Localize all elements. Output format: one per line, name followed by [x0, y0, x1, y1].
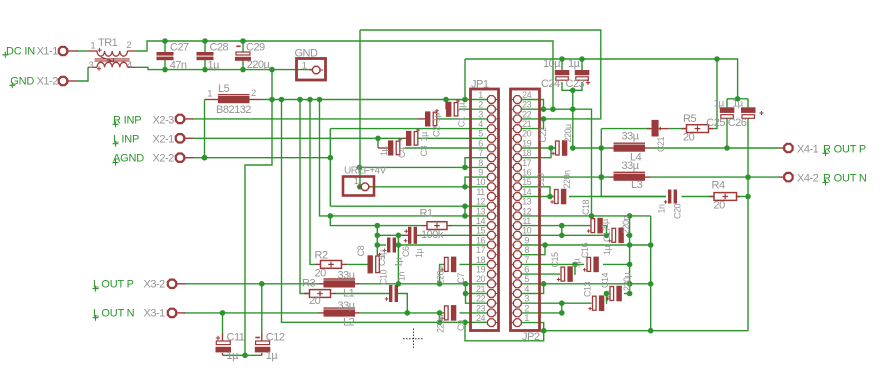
svg-text:C23: C23 — [566, 78, 585, 90]
supply symbol UREF+4V — [343, 166, 387, 196]
connector pad X4-1 — [779, 144, 793, 152]
capacitor C7 — [436, 257, 467, 285]
inductor L5 — [205, 83, 263, 116]
wire vertical x300 from supply row to R3 — [300, 100, 310, 294]
capacitor C24 — [541, 58, 569, 90]
wire JP2 pin18 bracket — [521, 148, 551, 158]
svg-text:C6: C6 — [401, 246, 411, 257]
svg-text:1µ: 1µ — [432, 112, 442, 122]
wire x330 vertical joining JP1 pin4 and pin12 rows — [330, 129, 487, 209]
svg-text:23: 23 — [522, 100, 532, 110]
svg-text:C22: C22 — [538, 127, 548, 143]
wire L5 pin1 to AGND row — [202, 100, 208, 161]
wire L INP row to C3 and JP1 pin5 — [192, 137, 487, 139]
svg-text:14: 14 — [476, 216, 486, 226]
svg-text:220n: 220n — [436, 314, 446, 333]
svg-text:C28: C28 — [210, 42, 229, 54]
svg-text:C1: C1 — [457, 116, 467, 127]
capacitor C11 — [216, 332, 245, 362]
svg-text:15: 15 — [476, 226, 486, 236]
inductor L1 — [319, 269, 360, 299]
svg-text:C29: C29 — [246, 42, 265, 54]
wire JP2 pin11 row through C18 — [521, 223, 609, 238]
svg-text:C10: C10 — [379, 269, 389, 285]
connector pad X2-2 — [176, 154, 193, 162]
svg-text:C13: C13 — [583, 281, 593, 297]
wire supply bus row1 from L5 pin2 to JP1 pin1 — [262, 97, 487, 103]
svg-text:20: 20 — [315, 268, 327, 280]
wire JP2 pin14 row through C19 to C20 R4 — [521, 196, 666, 198]
connector pad X2-3 — [176, 115, 193, 123]
svg-text:9: 9 — [478, 168, 483, 178]
svg-text:1µ: 1µ — [227, 350, 240, 362]
svg-text:X2-3: X2-3 — [153, 114, 175, 126]
svg-text:1µ: 1µ — [414, 248, 424, 258]
svg-text:220µ: 220µ — [622, 272, 632, 291]
svg-text:R2: R2 — [315, 249, 328, 261]
wire JP1 pin7 bracket to pin8 row — [462, 158, 487, 171]
wire top bus y41 from TR1 pin2 to JP2 pin23 net — [136, 38, 553, 109]
wire right ground vertical x650 to bottom bus — [648, 216, 654, 334]
wire C25 C26 top tie — [727, 96, 748, 107]
svg-text:X4-2: X4-2 — [797, 172, 819, 184]
connector pad X4-2 — [779, 173, 793, 181]
capacitor C22 — [538, 124, 573, 156]
svg-text:4: 4 — [127, 60, 132, 71]
svg-text:DC IN: DC IN — [6, 45, 35, 57]
svg-text:33µ: 33µ — [338, 300, 356, 312]
wire C12 vertical from L OUT P row — [261, 284, 263, 335]
svg-text:R OUT P: R OUT P — [823, 143, 866, 155]
svg-text:100k: 100k — [421, 229, 444, 241]
svg-text:1: 1 — [354, 176, 359, 187]
wire JP2 pin5 row — [521, 281, 654, 287]
svg-text:7: 7 — [524, 255, 529, 265]
svg-text:10µ: 10µ — [543, 58, 561, 70]
svg-text:C11: C11 — [227, 332, 245, 344]
wire C4 tap from L INP row — [375, 136, 487, 149]
svg-text:C27: C27 — [170, 42, 189, 54]
svg-text:1n: 1n — [657, 204, 667, 214]
transformer TR1 — [87, 37, 136, 71]
svg-text:8: 8 — [524, 245, 529, 255]
svg-text:C4: C4 — [397, 147, 407, 158]
svg-text:18: 18 — [522, 148, 532, 158]
svg-text:12: 12 — [476, 197, 486, 207]
svg-text:X1-2: X1-2 — [37, 75, 59, 87]
svg-text:6: 6 — [524, 265, 529, 275]
svg-text:C16: C16 — [580, 242, 590, 258]
wire ground bus under C11 C12 — [223, 354, 262, 356]
svg-text:R1: R1 — [420, 208, 433, 220]
svg-text:2: 2 — [478, 100, 483, 110]
wire C25 bottom to R OUT P row — [724, 145, 730, 151]
wire JP2 pin15 bracket — [521, 187, 553, 200]
resistor R3 — [302, 278, 336, 308]
svg-text:33µ: 33µ — [622, 131, 640, 143]
svg-text:1µ: 1µ — [714, 99, 725, 110]
wire DC IN from X1-1 to TR1 pin 1 — [77, 50, 87, 52]
wire C11 vertical from L OUT N row — [222, 313, 224, 335]
svg-text:19: 19 — [522, 138, 532, 148]
svg-text:L3: L3 — [631, 179, 643, 191]
connector pad X3-2 — [168, 280, 185, 288]
label R OUT N — [823, 172, 867, 185]
capacitor C5 — [377, 238, 404, 268]
connector pad X3-1 — [168, 309, 185, 317]
svg-text:13: 13 — [476, 206, 486, 216]
capacitor C3 — [403, 128, 429, 156]
svg-text:11: 11 — [522, 216, 531, 226]
capacitor C23 — [566, 58, 591, 90]
svg-text:3: 3 — [478, 109, 483, 119]
svg-text:1µ: 1µ — [602, 245, 612, 255]
wire JP2 pin10 row through C17 — [521, 226, 632, 239]
wire JP2 pin16 row to L3 — [521, 174, 609, 180]
svg-text:X2-1: X2-1 — [153, 134, 175, 146]
capacitor C6 — [401, 227, 424, 258]
svg-text:1µ: 1µ — [419, 132, 429, 142]
capacitor C17 — [602, 215, 631, 243]
svg-text:X3-2: X3-2 — [144, 279, 166, 291]
svg-text:1µ: 1µ — [208, 59, 221, 71]
svg-text:21: 21 — [522, 119, 532, 129]
svg-text:JP1: JP1 — [471, 79, 489, 91]
wire C20 to R4 row — [682, 196, 749, 198]
capacitor C27 — [157, 41, 190, 71]
capacitor C16 — [580, 242, 612, 272]
label R OUT P — [823, 143, 867, 156]
capacitor C19 — [536, 170, 572, 204]
capacitor C8 — [356, 245, 387, 273]
wire JP2 pin7 row through C16 — [521, 262, 632, 268]
svg-text:1µ: 1µ — [377, 250, 387, 260]
wire x377 vertical from R1 row down to C8 right pin — [375, 223, 381, 261]
svg-text:220n: 220n — [621, 215, 631, 234]
wire JP2 pin6 row through C15 — [521, 264, 575, 274]
svg-text:2: 2 — [524, 303, 529, 313]
svg-text:C8: C8 — [356, 245, 366, 256]
svg-text:24: 24 — [476, 313, 486, 323]
svg-text:C19: C19 — [536, 173, 546, 189]
wire JP1 pins 21 22 bracket — [463, 284, 488, 303]
label L INP — [113, 134, 140, 147]
label GND X1 — [9, 75, 34, 88]
wire C24 C23 bottom tie — [562, 82, 582, 109]
wire JP2 pin22 bracket — [521, 116, 546, 129]
label AGND — [113, 153, 145, 166]
capacitor C15 — [550, 252, 582, 282]
wire JP2 pin3 row through C13 — [521, 291, 609, 306]
wire X1-2 to TR1 pin 3 — [78, 67, 88, 81]
svg-text:20: 20 — [522, 129, 532, 139]
inductor L4 — [609, 131, 651, 164]
wire vertical x319 from supply row to JP1 pin13 row and R1 — [320, 100, 488, 226]
svg-text:R OUT N: R OUT N — [823, 172, 867, 184]
capacitor C9 — [436, 305, 467, 333]
svg-text:UREF+4V: UREF+4V — [344, 166, 387, 177]
svg-text:R5: R5 — [683, 113, 696, 125]
wire GND net vertical x272 down to C11 C12 ground bus — [242, 70, 272, 359]
wire supply from top rect down x360 to UREF pad and JP1 pin10 — [357, 30, 487, 190]
wire pin8 row from UREF net — [357, 165, 488, 171]
cursor crosshair — [403, 329, 424, 350]
connector pad X2-1 — [176, 134, 193, 142]
svg-text:C21: C21 — [656, 136, 666, 152]
wire bottom bus from JP2 pin1 to R4 net — [521, 323, 748, 334]
svg-text:1µ: 1µ — [733, 99, 744, 110]
svg-text:X4-1: X4-1 — [797, 143, 819, 155]
svg-text:C9: C9 — [456, 320, 466, 331]
capacitor C28 — [197, 41, 229, 71]
inductor L3 — [609, 160, 651, 191]
connector pad X1-2 — [59, 77, 78, 85]
capacitor C29 — [235, 41, 271, 71]
svg-text:14: 14 — [522, 187, 532, 197]
svg-text:3: 3 — [524, 294, 529, 304]
svg-text:1µ: 1µ — [457, 103, 467, 113]
svg-text:8: 8 — [478, 158, 483, 168]
svg-text:1: 1 — [302, 60, 307, 71]
wire JP2 pin8 bracket — [521, 245, 545, 255]
svg-text:4: 4 — [524, 284, 529, 294]
svg-text:17: 17 — [522, 158, 532, 168]
svg-text:X2-2: X2-2 — [153, 153, 175, 165]
svg-text:1µ: 1µ — [568, 58, 581, 70]
svg-text:9: 9 — [524, 235, 529, 245]
svg-text:X1-1: X1-1 — [37, 45, 59, 57]
wire y59 bus with C24 C23 taps — [465, 56, 738, 99]
svg-text:2: 2 — [126, 40, 131, 51]
label R INP — [113, 114, 142, 127]
svg-text:5: 5 — [478, 129, 483, 139]
wire C7 to JP1 pin18 — [460, 263, 488, 265]
capacitor C20 — [657, 190, 683, 220]
svg-text:C15: C15 — [550, 252, 560, 268]
wire C7 bracket down to L OUT P row — [437, 264, 445, 286]
connector pad X1-1 — [59, 47, 78, 55]
capacitor C18 — [581, 199, 610, 233]
svg-text:16: 16 — [522, 168, 532, 178]
svg-text:C20: C20 — [672, 203, 682, 219]
wire x572 vertical to L4 input — [570, 109, 576, 151]
svg-text:10: 10 — [522, 226, 532, 236]
svg-text:7: 7 — [478, 148, 483, 158]
wire x398 vertical from C6 left down to L OUT P row — [396, 235, 402, 286]
wire JP2 pin4 bracket — [521, 284, 544, 294]
svg-text:C12: C12 — [266, 332, 285, 344]
wire R INP row to C2 and JP1 pin3 — [192, 118, 487, 120]
svg-text:1n: 1n — [397, 271, 407, 281]
svg-text:3: 3 — [89, 60, 94, 71]
svg-text:1µ: 1µ — [572, 258, 582, 268]
wire C21 to R5 — [669, 128, 686, 130]
svg-text:L5: L5 — [218, 83, 230, 95]
wire L OUT N row from X3-1 through L2 C9 to JP1 pin23 — [184, 310, 487, 316]
capacitor C4 — [378, 138, 407, 158]
svg-text:C7: C7 — [456, 273, 466, 284]
svg-text:C17: C17 — [602, 226, 612, 242]
svg-text:5: 5 — [524, 274, 529, 284]
svg-text:L OUT N: L OUT N — [93, 308, 135, 320]
svg-text:47n: 47n — [170, 59, 187, 71]
wire vertical x310 from supply row to R2 — [310, 100, 315, 265]
capacitor C12 — [255, 332, 285, 362]
capacitor C21 — [647, 120, 669, 152]
svg-text:C3: C3 — [419, 145, 429, 156]
svg-text:11: 11 — [476, 187, 485, 197]
svg-text:20: 20 — [476, 274, 486, 284]
resistor R4 — [709, 180, 740, 212]
wire JP2 pin9 row to right ground vertical — [521, 242, 654, 248]
capacitor C10 — [379, 269, 407, 302]
wire C1 feed from supply row and output to JP1 pin2 — [446, 100, 487, 110]
svg-text:C14: C14 — [600, 272, 610, 288]
resistor R5 — [682, 113, 714, 144]
wire AGND row to x330 vertical — [192, 155, 333, 161]
resistor R2 — [315, 249, 347, 279]
wire JP2 pin24 bracket — [521, 100, 546, 112]
inductor L2 — [319, 300, 360, 328]
svg-text:1µ: 1µ — [379, 146, 389, 156]
svg-text:6: 6 — [478, 138, 483, 148]
wire C5 row to JP1 pin16 — [375, 242, 488, 248]
svg-text:1: 1 — [207, 89, 212, 100]
svg-text:1µ: 1µ — [266, 350, 279, 362]
header JP1 — [471, 79, 499, 331]
svg-text:JP2: JP2 — [522, 331, 540, 343]
wire R OUT N row from L3 to X4-2 — [651, 176, 780, 178]
svg-text:33µ: 33µ — [338, 269, 356, 281]
wire vertical x281 from supply row down to JP1 pin24 row — [282, 100, 488, 326]
capacitor C14 — [600, 272, 632, 301]
svg-text:R4: R4 — [712, 180, 725, 192]
header JP2 — [511, 89, 540, 343]
svg-text:C25: C25 — [706, 117, 725, 129]
svg-text:1: 1 — [524, 313, 529, 323]
capacitor C1 — [446, 99, 467, 127]
wire R5 net vertical x717 — [710, 59, 718, 129]
wire JP2 pin23 row with taps — [521, 106, 594, 218]
svg-text:22: 22 — [522, 109, 532, 119]
svg-text:220µ: 220µ — [247, 59, 271, 71]
wire R1 to JP1 pin14 — [452, 225, 487, 227]
svg-text:2: 2 — [251, 88, 256, 99]
svg-text:GND: GND — [295, 48, 319, 60]
wire R4 right vertical from C26 to bottom bus — [745, 119, 751, 331]
svg-text:C18: C18 — [581, 199, 591, 215]
svg-text:X3-1: X3-1 — [144, 308, 166, 320]
svg-text:20: 20 — [309, 295, 321, 307]
svg-text:15: 15 — [522, 177, 532, 187]
svg-text:L2: L2 — [343, 316, 355, 328]
wire under-loop from JP1 pin24 below connectors — [462, 320, 544, 341]
svg-text:4: 4 — [478, 119, 483, 129]
capacitor C25 — [706, 99, 734, 148]
svg-text:24: 24 — [522, 90, 532, 100]
wire JP2 pin19 row through C22 to L4 — [521, 145, 609, 151]
wire JP1 pin12 branch down to pin13 row — [464, 206, 466, 216]
svg-text:16: 16 — [476, 235, 486, 245]
wire C6 output to JP1 pin15 — [398, 234, 487, 236]
wire JP2 pin2 bracket — [521, 303, 565, 316]
wire JP2 pin12 row — [521, 213, 651, 219]
label L OUT P — [93, 279, 134, 292]
wire bottom bus y69.6 from TR1 pin4 to GND symbol — [136, 67, 312, 73]
svg-text:18: 18 — [476, 255, 486, 265]
svg-text:21: 21 — [476, 284, 486, 294]
svg-text:C24: C24 — [541, 78, 560, 90]
svg-text:220µ: 220µ — [563, 124, 573, 143]
svg-text:TR1: TR1 — [98, 37, 118, 49]
wire top rect y30 down to JP2 pin22 row — [360, 30, 601, 119]
svg-text:12: 12 — [522, 206, 532, 216]
svg-text:220n: 220n — [562, 170, 572, 189]
label DC IN — [2, 45, 35, 58]
wire R OUT P row from L4 to X4-1 — [651, 147, 780, 149]
capacitor C2 — [418, 109, 442, 137]
wire C21 R5 row — [601, 128, 650, 130]
svg-text:20: 20 — [683, 131, 695, 143]
svg-text:R3: R3 — [302, 278, 315, 290]
label L OUT N — [93, 308, 135, 321]
svg-text:1: 1 — [90, 41, 95, 52]
svg-text:33µ: 33µ — [622, 160, 640, 172]
wire L OUT P row from X3-2 through L1 to JP1 pin20 — [184, 281, 487, 287]
svg-text:1µ: 1µ — [394, 257, 404, 267]
svg-text:19: 19 — [476, 265, 486, 275]
wire R2 to C8 — [346, 263, 368, 265]
wire x601 vertical from C21 row to C20 row — [599, 129, 667, 197]
wire C9 tap down to pin24 row — [439, 313, 441, 322]
capacitor C13 — [583, 281, 616, 311]
svg-text:L1: L1 — [343, 288, 355, 300]
svg-text:B82132: B82132 — [216, 104, 251, 116]
svg-text:1: 1 — [478, 90, 483, 100]
svg-text:10: 10 — [476, 177, 486, 187]
wire C6 row left extension — [377, 233, 403, 239]
wire right caps ground vertical x629 — [629, 216, 631, 294]
resistor R1 — [420, 208, 453, 242]
svg-text:L OUT P: L OUT P — [93, 279, 134, 291]
ground symbol GND — [295, 48, 326, 81]
wire R3 through C10 down to L OUT N row — [335, 294, 411, 316]
svg-text:C26: C26 — [728, 117, 747, 129]
svg-text:13: 13 — [522, 197, 532, 207]
svg-text:20: 20 — [714, 199, 726, 211]
svg-text:22: 22 — [476, 294, 486, 304]
svg-text:17: 17 — [476, 245, 486, 255]
wire C14 row — [605, 291, 632, 297]
svg-text:C2: C2 — [432, 126, 442, 137]
capacitor C26 — [728, 99, 764, 129]
svg-text:220n: 220n — [436, 266, 446, 285]
svg-text:23: 23 — [476, 303, 486, 313]
